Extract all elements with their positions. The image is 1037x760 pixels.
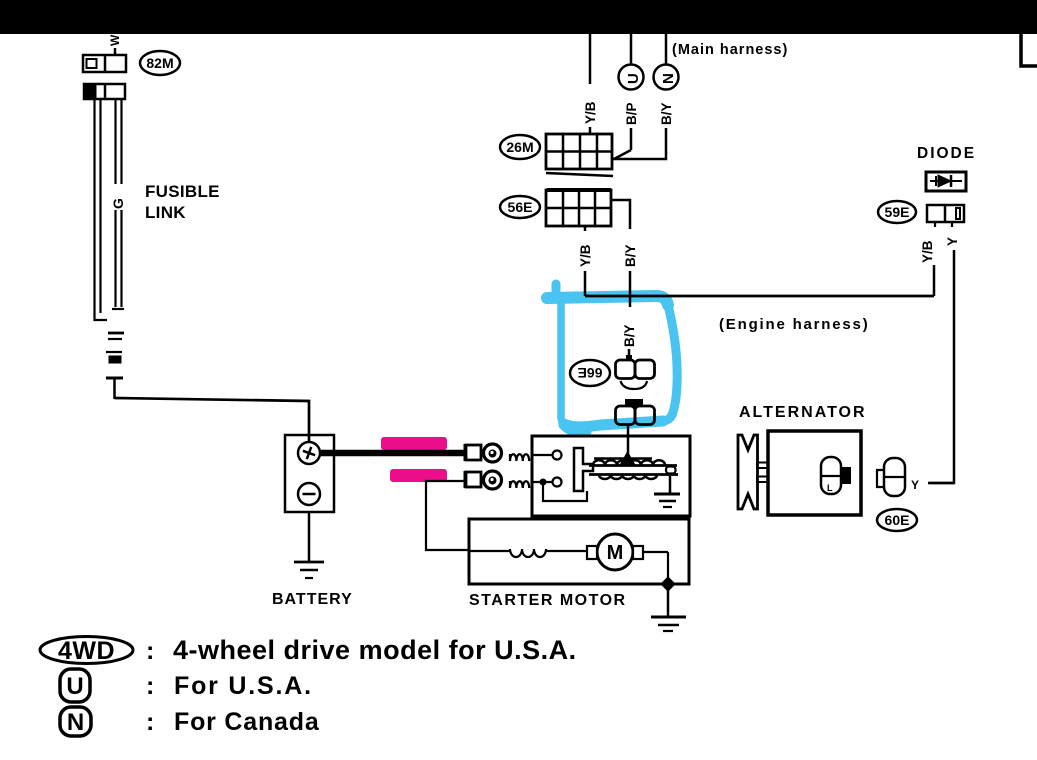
svg-text:56E: 56E bbox=[508, 199, 533, 215]
svg-text:N: N bbox=[660, 73, 677, 84]
svg-text:26M: 26M bbox=[506, 139, 533, 155]
svg-text:U: U bbox=[625, 73, 642, 84]
svg-text:B/Y: B/Y bbox=[659, 102, 674, 125]
svg-text:(Engine harness): (Engine harness) bbox=[719, 316, 870, 333]
svg-text:Y/B: Y/B bbox=[578, 244, 593, 267]
svg-text:L: L bbox=[827, 483, 833, 493]
svg-text::: : bbox=[146, 672, 154, 700]
svg-text:Y/B: Y/B bbox=[583, 101, 598, 124]
svg-text:BATTERY: BATTERY bbox=[272, 591, 353, 608]
svg-text:(Main harness): (Main harness) bbox=[672, 42, 788, 58]
svg-text:4WD: 4WD bbox=[58, 637, 115, 665]
svg-text:60E: 60E bbox=[885, 512, 910, 528]
svg-text:Y/B: Y/B bbox=[920, 240, 935, 263]
svg-text:M: M bbox=[607, 542, 624, 564]
svg-text:B/P: B/P bbox=[624, 102, 639, 125]
svg-text:Y: Y bbox=[911, 478, 919, 492]
svg-text:FUSIBLE: FUSIBLE bbox=[145, 182, 220, 201]
svg-text::: : bbox=[146, 637, 154, 665]
svg-text:For U.S.A.: For U.S.A. bbox=[174, 672, 313, 700]
svg-text:LINK: LINK bbox=[145, 203, 186, 222]
svg-text:66E: 66E bbox=[578, 365, 603, 381]
svg-text:DIODE: DIODE bbox=[917, 145, 976, 162]
svg-text:B/Y: B/Y bbox=[623, 244, 638, 267]
svg-text:B/Y: B/Y bbox=[622, 324, 637, 347]
svg-text:ALTERNATOR: ALTERNATOR bbox=[739, 404, 867, 421]
svg-text:W: W bbox=[108, 34, 122, 46]
svg-text:59E: 59E bbox=[885, 204, 910, 220]
svg-text:For Canada: For Canada bbox=[174, 708, 320, 736]
svg-text:G: G bbox=[110, 198, 126, 209]
svg-text:82M: 82M bbox=[146, 55, 173, 71]
svg-text::: : bbox=[146, 708, 154, 736]
svg-text:Y: Y bbox=[945, 237, 960, 246]
svg-text:4-wheel drive model for U.S.A.: 4-wheel drive model for U.S.A. bbox=[173, 635, 577, 665]
svg-text:N: N bbox=[67, 709, 84, 736]
svg-text:STARTER MOTOR: STARTER MOTOR bbox=[469, 592, 627, 609]
svg-text:U: U bbox=[66, 673, 83, 700]
